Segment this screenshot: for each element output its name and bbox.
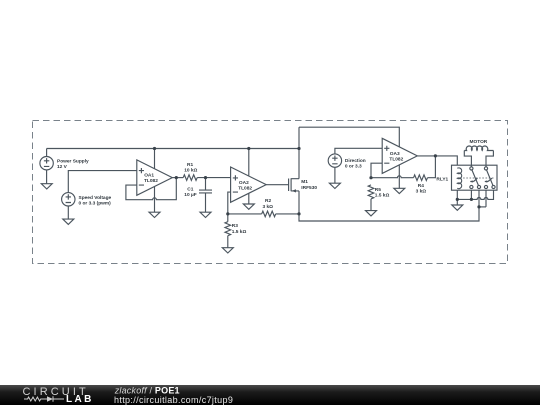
svg-text:3 kΩ: 3 kΩ [416,189,427,195]
svg-text:M1: M1 [301,179,308,185]
wire relay coil bottom [456,188,458,199]
wire OA3 - input branch [371,163,382,178]
resistor R3 [225,222,231,236]
ground for V1 [41,184,52,189]
svg-text:10 µF: 10 µF [184,192,196,198]
wire relay ground rail with hops [457,188,493,199]
relay RLY1 [452,165,498,190]
wire M1 drain riser [298,127,300,179]
wire M1 source down [298,191,300,214]
wire relay ground stem [456,199,458,205]
wire R5/R4 node to R4 with hop [371,176,414,178]
wire top loop to OA3 V+ [299,127,399,147]
wire V3 to OA3 + input [335,148,382,154]
capacitor C1 [199,190,212,193]
wire OA3 V- stem [398,165,400,188]
voltage source V1 Power Supply [40,149,53,184]
wire OA2 V- stem [248,193,250,204]
wire relay throw bracket [479,206,486,208]
wire relay pinB1 down [485,188,487,207]
wire OA3 output to relay coil [417,156,457,168]
svg-text:R3: R3 [232,223,238,229]
svg-text:MOTOR: MOTOR [470,139,488,145]
op-amp OA1 [137,160,173,195]
svg-text:IRF530: IRF530 [301,185,317,191]
svg-text:OA3: OA3 [390,151,400,157]
svg-text:C1: C1 [187,187,193,193]
ground for R3 [222,248,233,253]
svg-text:Power Supply: Power Supply [57,159,89,165]
ground for OA2 V- [243,204,254,209]
resistor R1 [183,175,197,181]
wire OA2 output to M1 gate [266,184,288,186]
ground for R5 [366,211,377,216]
svg-text:1.5 kΩ: 1.5 kΩ [375,193,390,199]
svg-text:http://circuitlab.com/c7jtup9: http://circuitlab.com/c7jtup9 [114,395,233,405]
wire 12V top rail [47,148,299,150]
svg-text:R1: R1 [187,162,193,168]
wire OA1 feedback loop [126,178,176,200]
svg-text:TL082: TL082 [389,157,403,163]
ground for C1 [200,212,211,217]
wire C1 top stem [205,178,207,191]
voltage source V3 Direction [328,154,341,183]
svg-text:zlackoff / POE1: zlackoff / POE1 [114,385,180,395]
op-amp OA2 [231,167,267,202]
svg-text:0 or 3.3 (pwm): 0 or 3.3 (pwm) [79,201,112,207]
ground for OA1 V- [149,212,160,217]
svg-text:3 kΩ: 3 kΩ [263,204,274,210]
wire R5 bottom stem [370,199,372,211]
svg-text:Direction: Direction [345,158,366,164]
wire R3 top stem [227,214,229,222]
wire OA1 output to R1 [172,177,183,179]
svg-text:R4: R4 [418,183,424,189]
resistor R4 [414,175,428,181]
wire V2 to OA1 + input [68,171,137,193]
svg-text:1.5 kΩ: 1.5 kΩ [232,229,247,235]
ground for OA3 V- [394,188,405,193]
svg-text:12 V: 12 V [57,164,68,170]
svg-text:0 or 3.3: 0 or 3.3 [345,164,362,170]
svg-text:OA1: OA1 [144,173,154,179]
svg-text:TL082: TL082 [144,178,158,184]
transistor M1 [289,178,299,192]
svg-text:LAB: LAB [66,394,94,405]
wire C1 bottom stem [205,193,207,212]
border frame (dashed schematic boundary) [33,121,508,264]
svg-text:RLY1: RLY1 [436,176,448,182]
wire relay pinA2 down [478,188,480,207]
wire R3 bottom stem [227,236,229,248]
op-amp OA3 [382,138,417,173]
svg-text:R5: R5 [375,187,381,193]
wire R1 to OA2 + input [197,177,230,179]
voltage source V2 Speed Voltage [62,193,75,220]
ground for V3 [329,183,340,188]
motor MOTOR [464,146,493,167]
footer bar [0,385,540,405]
svg-text:OA2: OA2 [239,180,249,186]
resistor R5 [368,185,374,199]
svg-text:TL082: TL082 [238,185,252,191]
wire OA1 V+ stem [154,149,156,169]
wire R4 to OA3 output [428,156,436,178]
wire R2 to M1 source node [276,213,299,215]
wire OA2 - input branch [228,192,231,214]
svg-text:R2: R2 [265,198,271,204]
wire OA2 - to R2 [228,213,262,215]
ground for relay coil [452,205,463,210]
node junction dots [153,147,156,150]
ground for V2 [63,219,74,224]
resistor R2 [262,211,276,217]
svg-text:10 kΩ: 10 kΩ [184,168,197,174]
wire relay pin1 down [470,188,472,199]
wire OA1 V- stem [154,187,156,213]
wire bottom return to relay [299,207,479,221]
wire OA2 V+ stem [248,149,250,176]
svg-text:Speed Voltage: Speed Voltage [79,195,112,201]
